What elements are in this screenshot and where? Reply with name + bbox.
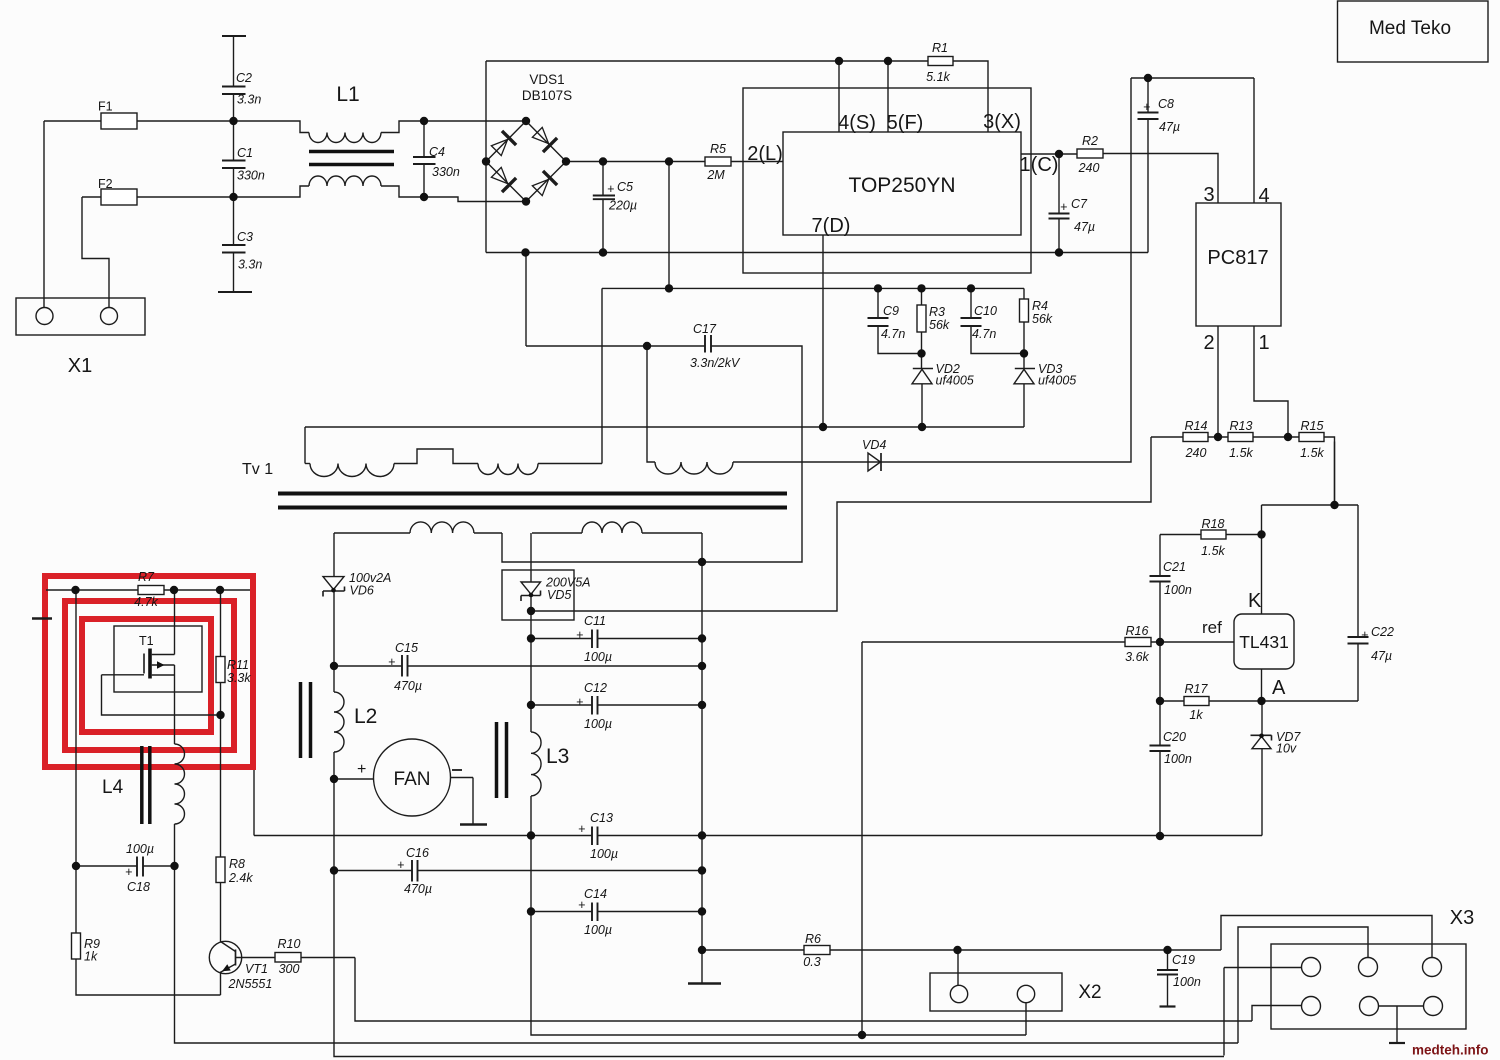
svg-text:5.1k: 5.1k <box>926 70 950 84</box>
svg-text:VD4: VD4 <box>862 438 886 452</box>
svg-text:4.7n: 4.7n <box>881 327 905 341</box>
svg-text:100µ: 100µ <box>584 650 612 664</box>
svg-text:4(S): 4(S) <box>838 112 876 134</box>
svg-text:C15: C15 <box>395 641 418 655</box>
svg-text:+: + <box>578 898 585 912</box>
svg-text:R8: R8 <box>229 857 245 871</box>
svg-text:R2: R2 <box>1082 134 1098 148</box>
svg-text:1k: 1k <box>84 950 98 964</box>
svg-text:+: + <box>607 182 614 196</box>
svg-text:K: K <box>1248 590 1262 612</box>
svg-text:F1: F1 <box>98 100 113 114</box>
svg-text:4.7k: 4.7k <box>134 595 158 609</box>
svg-text:47µ: 47µ <box>1159 120 1180 134</box>
svg-text:100n: 100n <box>1164 583 1192 597</box>
svg-text:R15: R15 <box>1301 419 1324 433</box>
svg-text:A: A <box>1272 677 1286 699</box>
svg-text:2.4k: 2.4k <box>228 871 253 885</box>
svg-text:1.5k: 1.5k <box>1229 446 1253 460</box>
svg-text:2: 2 <box>1203 332 1214 354</box>
svg-text:Med Teko: Med Teko <box>1369 18 1451 39</box>
svg-text:F2: F2 <box>98 177 113 191</box>
svg-text:300: 300 <box>279 962 300 976</box>
svg-text:medteh.info: medteh.info <box>1412 1043 1489 1058</box>
svg-text:C7: C7 <box>1071 197 1088 211</box>
svg-text:C12: C12 <box>584 681 607 695</box>
svg-text:R5: R5 <box>710 142 726 156</box>
svg-text:C20: C20 <box>1163 730 1186 744</box>
svg-text:VDS1: VDS1 <box>529 72 564 87</box>
svg-text:R13: R13 <box>1230 419 1253 433</box>
svg-text:DB107S: DB107S <box>522 88 572 103</box>
svg-text:2(L): 2(L) <box>747 143 783 165</box>
svg-text:C2: C2 <box>236 71 252 85</box>
svg-text:1(C): 1(C) <box>1020 154 1059 176</box>
svg-text:L1: L1 <box>336 83 359 106</box>
svg-text:VT1: VT1 <box>245 962 268 976</box>
svg-text:R11: R11 <box>227 658 249 672</box>
svg-text:10v: 10v <box>1276 742 1297 756</box>
svg-text:0.3: 0.3 <box>803 955 820 969</box>
svg-text:C18: C18 <box>127 880 150 894</box>
svg-text:X2: X2 <box>1078 982 1101 1003</box>
svg-text:3.3n: 3.3n <box>237 93 261 107</box>
svg-text:L3: L3 <box>546 745 569 768</box>
svg-text:R4: R4 <box>1032 299 1048 313</box>
svg-text:240: 240 <box>1078 161 1100 175</box>
svg-text:R10: R10 <box>278 937 301 951</box>
svg-text:3.6k: 3.6k <box>1125 650 1149 664</box>
svg-text:C11: C11 <box>584 614 606 628</box>
svg-text:47µ: 47µ <box>1371 649 1392 663</box>
svg-text:ref: ref <box>1202 618 1222 637</box>
svg-text:470µ: 470µ <box>394 679 422 693</box>
svg-text:C19: C19 <box>1172 953 1195 967</box>
svg-text:Tv 1: Tv 1 <box>242 461 273 478</box>
svg-text:R16: R16 <box>1126 624 1149 638</box>
svg-text:R3: R3 <box>929 305 945 319</box>
svg-text:1.5k: 1.5k <box>1300 446 1324 460</box>
svg-text:C4: C4 <box>429 145 445 159</box>
svg-text:C17: C17 <box>693 322 717 336</box>
svg-text:+: + <box>1361 628 1368 642</box>
svg-text:C9: C9 <box>883 304 899 318</box>
svg-text:VD5: VD5 <box>547 588 571 602</box>
svg-text:1.5k: 1.5k <box>1201 544 1225 558</box>
svg-text:56k: 56k <box>929 318 950 332</box>
svg-text:C10: C10 <box>974 304 997 318</box>
svg-text:+: + <box>125 865 132 879</box>
svg-text:330n: 330n <box>237 169 265 183</box>
svg-text:PC817: PC817 <box>1207 247 1268 269</box>
svg-text:100µ: 100µ <box>590 847 618 861</box>
svg-text:C13: C13 <box>590 811 613 825</box>
svg-text:R18: R18 <box>1202 517 1225 531</box>
svg-text:56k: 56k <box>1032 312 1053 326</box>
svg-text:R6: R6 <box>805 932 821 946</box>
svg-text:220µ: 220µ <box>608 199 637 213</box>
svg-text:L2: L2 <box>354 705 377 728</box>
svg-text:100µ: 100µ <box>584 923 612 937</box>
svg-text:100µ: 100µ <box>126 842 154 856</box>
svg-text:X1: X1 <box>68 355 92 377</box>
svg-text:+: + <box>388 655 395 669</box>
svg-text:3.3n: 3.3n <box>238 258 262 272</box>
svg-text:+: + <box>576 695 583 709</box>
svg-text:3.3k: 3.3k <box>227 671 251 685</box>
svg-text:uf4005: uf4005 <box>936 374 974 388</box>
svg-text:+: + <box>357 761 366 778</box>
svg-text:T1: T1 <box>139 634 154 648</box>
svg-text:240: 240 <box>1185 446 1207 460</box>
svg-text:C21: C21 <box>1163 560 1186 574</box>
svg-text:C22: C22 <box>1371 625 1394 639</box>
svg-text:470µ: 470µ <box>404 882 432 896</box>
svg-text:+: + <box>578 822 585 836</box>
svg-text:TL431: TL431 <box>1239 632 1289 652</box>
svg-text:+: + <box>1143 100 1150 114</box>
svg-text:C16: C16 <box>406 846 429 860</box>
svg-text:+: + <box>397 858 404 872</box>
svg-text:R14: R14 <box>1185 419 1208 433</box>
svg-text:47µ: 47µ <box>1074 220 1095 234</box>
svg-text:330n: 330n <box>432 165 460 179</box>
svg-text:C8: C8 <box>1158 97 1174 111</box>
svg-text:4: 4 <box>1258 185 1269 207</box>
svg-text:1: 1 <box>1258 332 1269 354</box>
svg-text:+: + <box>1060 200 1067 214</box>
svg-text:C14: C14 <box>584 887 607 901</box>
svg-text:7(D): 7(D) <box>812 215 851 237</box>
svg-text:2N5551: 2N5551 <box>228 977 273 991</box>
svg-text:3.3n/2kV: 3.3n/2kV <box>690 356 741 370</box>
svg-text:R7: R7 <box>138 570 155 584</box>
svg-text:FAN: FAN <box>394 769 431 790</box>
svg-text:100n: 100n <box>1173 975 1201 989</box>
svg-text:1k: 1k <box>1189 708 1203 722</box>
svg-text:L4: L4 <box>102 777 124 798</box>
svg-text:C3: C3 <box>237 230 253 244</box>
svg-text:uf4005: uf4005 <box>1038 374 1076 388</box>
svg-text:3: 3 <box>1203 184 1214 206</box>
svg-text:R1: R1 <box>932 41 948 55</box>
svg-text:VD6: VD6 <box>350 584 374 598</box>
svg-text:3(X): 3(X) <box>983 111 1021 133</box>
svg-text:C1: C1 <box>237 146 253 160</box>
svg-text:5(F): 5(F) <box>887 112 924 134</box>
svg-text:100µ: 100µ <box>584 717 612 731</box>
svg-text:R17: R17 <box>1185 682 1209 696</box>
svg-text:100n: 100n <box>1164 752 1192 766</box>
svg-text:TOP250YN: TOP250YN <box>849 174 956 197</box>
svg-text:+: + <box>576 628 583 642</box>
svg-text:X3: X3 <box>1450 907 1474 929</box>
svg-text:2M: 2M <box>706 168 725 182</box>
svg-text:C5: C5 <box>617 180 633 194</box>
svg-text:4.7n: 4.7n <box>972 327 996 341</box>
